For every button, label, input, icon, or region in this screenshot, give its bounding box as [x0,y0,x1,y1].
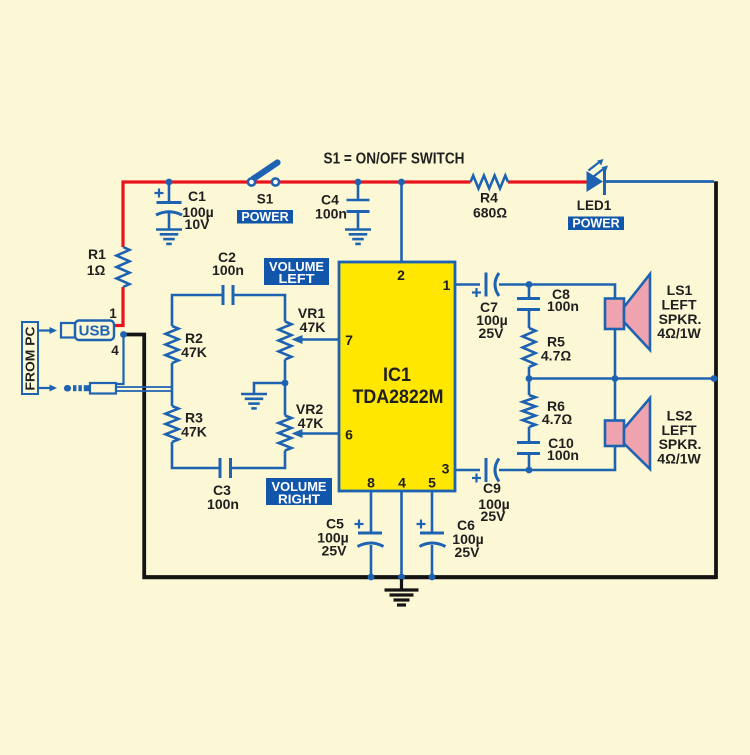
svg-text:100n: 100n [547,447,579,463]
pin number 2 [397,267,405,283]
wire node B to LS2 bottom [529,446,615,470]
ground main black [385,579,419,605]
svg-text:6: 6 [345,427,353,443]
potentiometer VR2 [279,416,292,451]
label R5 [541,334,571,364]
label box VOLUME RIGHT [266,478,332,506]
capacitor C1 curved plate [156,212,182,215]
svg-text:4.7Ω: 4.7Ω [541,348,571,364]
label R1 [87,246,106,278]
label VR2 [296,401,323,431]
label LED1 [577,198,612,213]
wire red from R1 to USB pin 1 [113,287,123,326]
ground below C1 [156,230,182,244]
svg-text:RIGHT: RIGHT [278,492,320,506]
junction dot mid rail right [711,375,718,382]
junction dot VR1-VR2 [282,380,289,387]
pin number 4 [398,475,406,491]
junction dot C5 at bus [368,574,375,581]
svg-text:1: 1 [109,306,117,321]
junction dot pin 2 at rail [398,179,405,186]
label USB [79,323,111,340]
junction dot pin4 at bus [398,574,405,581]
svg-text:100n: 100n [547,298,579,314]
pin number 1 [443,277,451,293]
label C2 [212,249,244,278]
label C9 [478,480,509,524]
resistor R6 [523,395,536,427]
svg-text:C9: C9 [483,480,501,496]
switch S1 right terminal [272,178,279,185]
svg-text:5: 5 [428,475,436,491]
wire jack signal line lower [116,390,172,392]
svg-text:25V: 25V [455,544,481,560]
capacitor C6 curved plate [420,543,446,547]
svg-text:7: 7 [345,332,353,348]
LED1 cathode bar [603,168,606,195]
FROM PC box [22,322,38,394]
capacitor C7 plate + [485,273,488,297]
junction dot R5 R6 mid rail [526,375,533,382]
svg-text:S1: S1 [257,192,274,207]
svg-text:4Ω/1W: 4Ω/1W [657,450,701,466]
wire pin 1 to C7 [455,283,480,286]
resistor R4 [471,176,509,189]
svg-text:25V: 25V [481,508,507,524]
wire red V+ rail and drop to R1 [123,182,471,247]
capacitor C5 curved plate [358,543,384,547]
wire C7 to node A [499,283,529,286]
wire LS1 bottom to mid rail [614,329,617,379]
svg-text:LED1: LED1 [577,198,612,213]
pin number 8 [367,475,375,491]
capacitor C3 plates [220,458,231,478]
svg-text:4.7Ω: 4.7Ω [542,411,572,427]
junction dot node B [526,467,533,474]
svg-text:2: 2 [397,267,405,283]
wire C8 to R5 [528,311,531,328]
wire mid rail to R6 [528,379,531,396]
capacitor C5 plate + [358,532,382,535]
svg-text:TDA2822M: TDA2822M [353,387,444,408]
svg-text:4: 4 [398,475,406,491]
label R4 [473,190,507,221]
label S1 [257,192,274,207]
capacitor C10 plates [517,443,540,454]
wire black bottom ground bus [142,575,716,579]
LED1 emission arrows [589,159,609,177]
resistor R3 [166,406,179,442]
label C1 [182,188,213,232]
wire C6 to ground bus [431,545,434,577]
wire C9 to node B [499,469,529,472]
label C3 [207,482,239,512]
switch S1 lever [253,163,278,180]
label R6 [542,398,572,427]
svg-text:4: 4 [111,343,119,358]
wire C3 right lead up to VR2 [231,451,286,469]
USB connector body [75,321,114,341]
LED1 triangle [587,171,604,192]
wire C10 to node B [528,455,531,470]
label S1 = ON/OFF SWITCH [324,151,465,168]
pin number 6 [345,427,353,443]
svg-text:USB: USB [79,323,111,340]
label box VOLUME LEFT [264,258,329,286]
wire pin 6 to VR2 wiper [301,432,339,435]
capacitor C7 polarity + [472,288,481,297]
wiper arrow VR1 [292,335,303,344]
capacitor C6 plate + [420,532,444,535]
svg-text:4Ω/1W: 4Ω/1W [657,325,701,341]
svg-text:47K: 47K [181,424,207,440]
op-amp IC1 TDA2822M body [339,262,455,491]
ground below C4 [345,230,371,244]
label USB pin 4 [111,343,119,358]
label C4 [315,192,347,222]
wire C1 stem lower to ground [168,213,171,229]
switch S1 left terminal [248,178,255,185]
label box POWER for LED1 [568,216,624,230]
label C7 [476,299,507,341]
svg-text:100n: 100n [207,496,239,512]
svg-text:R1: R1 [88,246,106,262]
wire pin 3 to C9 [455,469,480,472]
arrow FROM PC to jack [38,385,57,392]
svg-text:S1 = ON/OFF SWITCH: S1 = ON/OFF SWITCH [324,151,465,168]
capacitor C8 plates [517,299,540,310]
wire C8 stem [528,285,531,298]
svg-text:IC1: IC1 [383,365,411,386]
label IC1 [383,365,411,386]
label C10 [547,435,579,463]
wire black right-side vertical [714,181,718,579]
svg-text:LEFT: LEFT [279,272,315,286]
audio jack body [90,383,116,394]
wire junction to mid ground [254,383,285,393]
wire red rail from R4 to LED1 anode [508,180,587,183]
label VR1 [298,305,325,335]
label C5 [317,516,348,559]
wire mid rail [529,377,714,380]
wire node A to LS1 top [529,285,615,299]
label C8 [547,286,579,314]
pin number 7 [345,332,353,348]
svg-text:47K: 47K [300,319,326,335]
capacitor C5 polarity + [355,520,364,529]
potentiometer VR1 [279,322,292,360]
svg-text:680Ω: 680Ω [473,205,507,221]
capacitor C4 plate 2 [347,210,370,213]
svg-text:47K: 47K [181,344,207,360]
resistor R5 [523,328,536,367]
svg-text:10V: 10V [185,216,211,232]
wire R6 to C10 [528,427,531,441]
arrow FROM PC to USB [38,327,57,334]
wire jack signal line upper [116,386,172,388]
capacitor C9 polarity + [472,474,481,483]
label LS1 [657,282,701,341]
wire R3 bottom to C3 [172,442,220,468]
junction dot node A [526,281,533,288]
wire black ground return from USB pin 4 [125,335,144,576]
junction dot USB pin 4 [120,331,127,338]
svg-text:100n: 100n [212,262,244,278]
svg-text:1Ω: 1Ω [87,262,106,278]
svg-text:8: 8 [367,475,375,491]
svg-text:POWER: POWER [572,216,619,230]
audio jack plug tip [64,385,90,392]
resistor R1 [117,247,130,287]
wire C4 stem upper [357,183,360,200]
wire pin 7 to VR1 wiper [301,338,339,341]
wiper arrow VR2 [292,429,303,438]
label C6 [452,517,483,560]
wire junction to VR2 top [284,383,287,416]
svg-text:100n: 100n [315,206,347,222]
capacitor C9 curved plate [495,459,499,482]
wire C2 left lead and down to R2 [172,295,223,326]
wire USB pin4 to jack node [116,336,124,384]
capacitor C1 polarity + [155,189,164,198]
svg-text:47K: 47K [298,415,324,431]
wire C5 to ground bus [370,545,373,577]
junction dot C6 at bus [429,574,436,581]
label R3 [181,410,207,440]
USB connector plug [61,323,75,338]
pin number 5 [428,475,436,491]
label box POWER for S1 [237,210,293,224]
capacitor C4 plate 1 [347,199,370,202]
wire pin 5 to C6 [431,491,434,533]
junction dot C4 at rail [355,179,362,186]
svg-text:25V: 25V [479,325,505,341]
capacitor C9 plate + [485,458,488,482]
speaker LS1 [605,274,650,350]
label R2 [181,330,207,360]
pin number 3 [442,461,450,477]
svg-text:1: 1 [443,277,451,293]
wire C1 stem upper [168,182,171,202]
svg-text:R4: R4 [480,190,498,206]
speaker LS2 [605,398,650,469]
svg-text:FROM PC: FROM PC [23,326,38,391]
label LS2 [657,408,701,467]
wire C4 stem lower to ground [357,212,360,230]
wire LED1 cathode to right rail [606,180,715,183]
wire C2 right lead and down to VR1 [233,295,285,322]
capacitor C7 curved plate [495,273,499,296]
wire pin 2 to V+ rail [400,183,403,262]
wire VR1 bottom to junction [284,360,287,384]
junction dot C1 at rail [166,179,173,186]
svg-text:25V: 25V [322,543,348,559]
wire mid rail to LS2 top [614,379,617,421]
resistor R2 [166,326,179,363]
svg-text:POWER: POWER [241,210,288,224]
wire pin 4 to ground bus [400,491,403,577]
svg-text:3: 3 [442,461,450,477]
capacitor C6 polarity + [417,520,426,529]
svg-text:C1: C1 [188,188,206,204]
label TDA2822M [353,387,444,408]
capacitor C2 plates [223,285,233,305]
wire R5 to mid rail [528,367,531,379]
wire R2 bottom to R3 top [171,363,174,406]
wire pin 8 to C5 [370,491,373,533]
label FROM PC [23,326,38,391]
junction dot LS mid rail [612,375,619,382]
capacitor C1 plate + [157,201,182,204]
ground at VR junction [241,394,267,408]
label USB pin 1 [109,306,117,321]
